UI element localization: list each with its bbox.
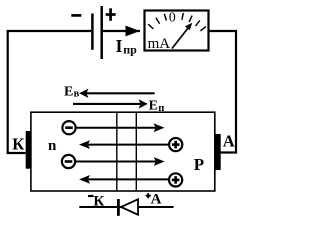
svg-text:I: I — [116, 36, 123, 56]
svg-text:А: А — [223, 131, 235, 150]
svg-text:К: К — [93, 193, 104, 209]
svg-text:К: К — [12, 134, 24, 153]
svg-text:P: P — [194, 155, 204, 174]
svg-text:0: 0 — [169, 11, 176, 26]
svg-text:в: в — [74, 89, 80, 100]
svg-text:Е: Е — [64, 85, 73, 100]
svg-text:n: n — [48, 138, 57, 154]
svg-text:Е: Е — [149, 99, 158, 114]
svg-text:mA: mA — [148, 36, 171, 52]
svg-text:А: А — [151, 192, 162, 208]
svg-text:пр: пр — [123, 43, 137, 57]
